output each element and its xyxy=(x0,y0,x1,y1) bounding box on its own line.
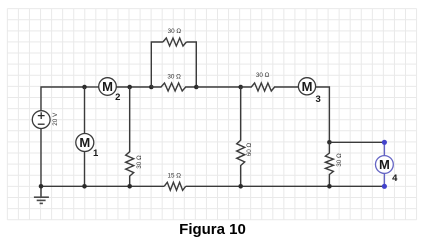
wire: left branch top, source to top bus corner xyxy=(41,87,85,111)
resistor 30 ohm (vertical branch) xyxy=(126,87,134,186)
svg-text:2: 2 xyxy=(115,92,120,103)
svg-text:30 Ω: 30 Ω xyxy=(168,28,182,35)
motor M1 xyxy=(76,134,94,152)
svg-text:3: 3 xyxy=(316,94,321,105)
motor M3 xyxy=(298,78,315,95)
wire: top bus M2 left lead xyxy=(85,86,99,88)
junction xyxy=(39,184,44,189)
junction xyxy=(82,184,87,189)
junction xyxy=(82,85,87,90)
motor M4 xyxy=(376,156,394,174)
junction xyxy=(327,184,332,189)
wire: M2 right to parallel section xyxy=(116,86,151,88)
resistor 30 ohm (right vertical branch) xyxy=(325,142,333,186)
wire: parallel loop right riser xyxy=(186,42,196,87)
svg-text:4: 4 xyxy=(392,173,398,184)
voltage source V1 (20 V) xyxy=(32,111,50,129)
wire: M4 bottom lead (blue) xyxy=(383,173,385,186)
svg-text:M: M xyxy=(379,157,390,172)
svg-text:30 Ω: 30 Ω xyxy=(336,153,343,167)
resistor 30 ohm (series to M3) xyxy=(241,83,299,91)
junction xyxy=(194,85,199,90)
svg-text:30 Ω: 30 Ω xyxy=(167,73,181,80)
wire: mid rail to M4 top node xyxy=(329,141,384,143)
motor M2 xyxy=(99,78,117,96)
wire: M1 bottom to bus xyxy=(84,152,86,187)
wire: M3 right down to mid rail xyxy=(316,87,330,142)
svg-text:60 Ω: 60 Ω xyxy=(246,142,253,156)
wire: bottom bus ground to 15 ohm xyxy=(41,185,164,187)
junction xyxy=(127,85,132,90)
motor M1 branch wire top xyxy=(84,87,86,134)
wire: top bus between parallel pair and node B xyxy=(196,86,240,88)
wire: parallel loop left riser xyxy=(151,42,163,87)
junction xyxy=(149,85,154,90)
resistor 30 ohm (upper of parallel pair) xyxy=(163,38,187,46)
wire: M4 top lead (blue) xyxy=(383,142,385,155)
svg-text:M: M xyxy=(79,135,90,150)
svg-text:M: M xyxy=(302,79,313,94)
junction xyxy=(327,140,332,145)
junction xyxy=(127,184,132,189)
ground xyxy=(34,186,49,203)
junction xyxy=(238,184,243,189)
resistor 15 ohm (bottom bus) xyxy=(164,182,186,190)
node terminal (blue, top) xyxy=(382,140,387,145)
junction xyxy=(238,85,243,90)
wire: bottom bus 15 ohm to right xyxy=(186,185,385,187)
node terminal (blue, bottom) xyxy=(382,184,387,189)
svg-text:30 Ω: 30 Ω xyxy=(256,72,270,79)
svg-text:20 V: 20 V xyxy=(52,112,59,126)
resistor 60 ohm (vertical branch) xyxy=(237,87,245,186)
svg-text:1: 1 xyxy=(93,148,99,159)
caption Figura 10 xyxy=(0,221,425,238)
resistor 30 ohm (lower of parallel pair) xyxy=(151,83,196,91)
svg-text:M: M xyxy=(102,79,113,94)
wire: source bottom to ground bus xyxy=(40,129,42,187)
svg-text:30 Ω: 30 Ω xyxy=(136,155,143,169)
svg-text:15 Ω: 15 Ω xyxy=(167,172,181,179)
